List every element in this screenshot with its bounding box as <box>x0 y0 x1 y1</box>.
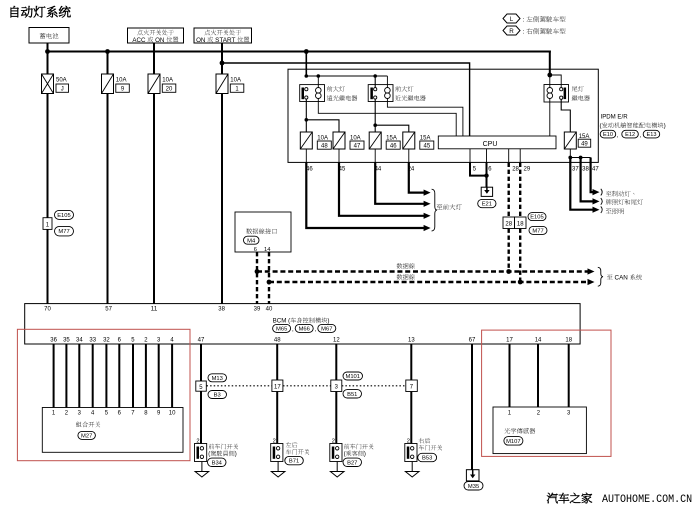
svg-text:START: START <box>213 37 237 44</box>
svg-text:14: 14 <box>535 338 542 344</box>
svg-text::: : <box>523 17 527 24</box>
svg-text:47: 47 <box>354 143 361 149</box>
svg-text:M77: M77 <box>532 229 543 235</box>
svg-text:M35: M35 <box>468 484 479 490</box>
svg-text:15A: 15A <box>420 135 431 141</box>
svg-text:13: 13 <box>408 338 415 344</box>
svg-text:40: 40 <box>266 306 273 312</box>
svg-text:E105: E105 <box>530 215 544 221</box>
svg-text:ACC: ACC <box>132 37 147 44</box>
svg-text:10: 10 <box>169 411 176 417</box>
svg-text:46: 46 <box>390 143 397 149</box>
svg-text:M4: M4 <box>247 238 256 244</box>
svg-text:44: 44 <box>375 166 382 172</box>
svg-text:B27: B27 <box>347 460 357 466</box>
svg-text:14: 14 <box>264 247 271 253</box>
svg-text:45: 45 <box>424 143 431 149</box>
svg-text:CPU: CPU <box>483 141 498 148</box>
svg-text:10A: 10A <box>350 135 361 141</box>
svg-text:50A: 50A <box>56 78 67 84</box>
svg-text:12: 12 <box>333 338 340 344</box>
svg-text:M27: M27 <box>81 434 92 440</box>
svg-text:35: 35 <box>63 338 70 344</box>
svg-text:32: 32 <box>103 338 110 344</box>
svg-text:10A: 10A <box>162 78 173 84</box>
svg-text:B53: B53 <box>422 456 432 462</box>
svg-text:28: 28 <box>505 222 512 228</box>
svg-text:M77: M77 <box>58 229 69 235</box>
svg-text:47: 47 <box>198 338 205 344</box>
svg-text:37: 37 <box>572 166 579 172</box>
svg-text:57: 57 <box>105 306 112 312</box>
svg-text:E105: E105 <box>57 213 70 219</box>
svg-text:18: 18 <box>517 222 524 228</box>
svg-text:6: 6 <box>254 247 257 253</box>
svg-text:48: 48 <box>321 143 328 149</box>
svg-text:M66: M66 <box>299 327 310 333</box>
svg-text:11: 11 <box>151 306 158 312</box>
svg-text:(: ( <box>208 451 210 458</box>
svg-text:B3: B3 <box>214 393 221 399</box>
svg-text:M101: M101 <box>346 374 361 380</box>
svg-text:48: 48 <box>274 338 281 344</box>
svg-text:AUTOHOME.COM.CN: AUTOHOME.COM.CN <box>602 494 692 506</box>
svg-text:B51: B51 <box>347 392 357 398</box>
svg-text:BCM (: BCM ( <box>273 318 292 325</box>
svg-text::: : <box>523 29 527 36</box>
svg-text:33: 33 <box>89 338 96 344</box>
svg-text:49: 49 <box>581 141 588 147</box>
svg-text:M13: M13 <box>212 376 223 382</box>
svg-text:M107: M107 <box>506 439 520 445</box>
svg-text:): ) <box>235 451 237 458</box>
svg-text:17: 17 <box>274 385 281 391</box>
svg-text:10A: 10A <box>317 135 328 141</box>
svg-text:E12: E12 <box>625 132 635 138</box>
svg-text:10A: 10A <box>230 78 241 84</box>
svg-text:CAN: CAN <box>613 275 630 282</box>
svg-text:67: 67 <box>469 338 476 344</box>
svg-text:46: 46 <box>306 166 313 172</box>
svg-text:): ) <box>364 451 366 458</box>
svg-text:M67: M67 <box>321 327 332 333</box>
svg-text:70: 70 <box>44 306 51 312</box>
svg-text:L: L <box>510 16 514 23</box>
svg-text:): ) <box>664 123 666 130</box>
svg-text:B34: B34 <box>212 460 223 466</box>
svg-text:): ) <box>327 318 329 325</box>
svg-text:E13: E13 <box>647 132 657 138</box>
svg-text:R: R <box>509 28 514 35</box>
svg-text:28: 28 <box>512 166 519 172</box>
svg-text:(: ( <box>344 451 346 458</box>
svg-text:E10: E10 <box>603 132 613 138</box>
svg-text:IPDM E/R: IPDM E/R <box>601 114 629 121</box>
svg-text:29: 29 <box>524 166 531 172</box>
svg-text:E21: E21 <box>482 202 492 208</box>
svg-text:20: 20 <box>166 87 173 93</box>
svg-text:J: J <box>61 87 64 93</box>
svg-text:B71: B71 <box>289 459 299 465</box>
svg-text:10A: 10A <box>116 78 127 84</box>
svg-text:39: 39 <box>254 306 261 312</box>
svg-text:47: 47 <box>592 166 599 172</box>
svg-text:34: 34 <box>76 338 83 344</box>
svg-text:45: 45 <box>339 166 346 172</box>
svg-text:38: 38 <box>582 166 589 172</box>
svg-text:17: 17 <box>506 338 513 344</box>
svg-text:15A: 15A <box>386 135 397 141</box>
svg-text:M65: M65 <box>276 327 287 333</box>
svg-text:18: 18 <box>565 338 572 344</box>
svg-text:24: 24 <box>408 166 415 172</box>
svg-text:38: 38 <box>218 306 225 312</box>
svg-text:ON: ON <box>196 37 207 44</box>
svg-text:36: 36 <box>50 338 57 344</box>
svg-text:ON: ON <box>153 37 166 44</box>
